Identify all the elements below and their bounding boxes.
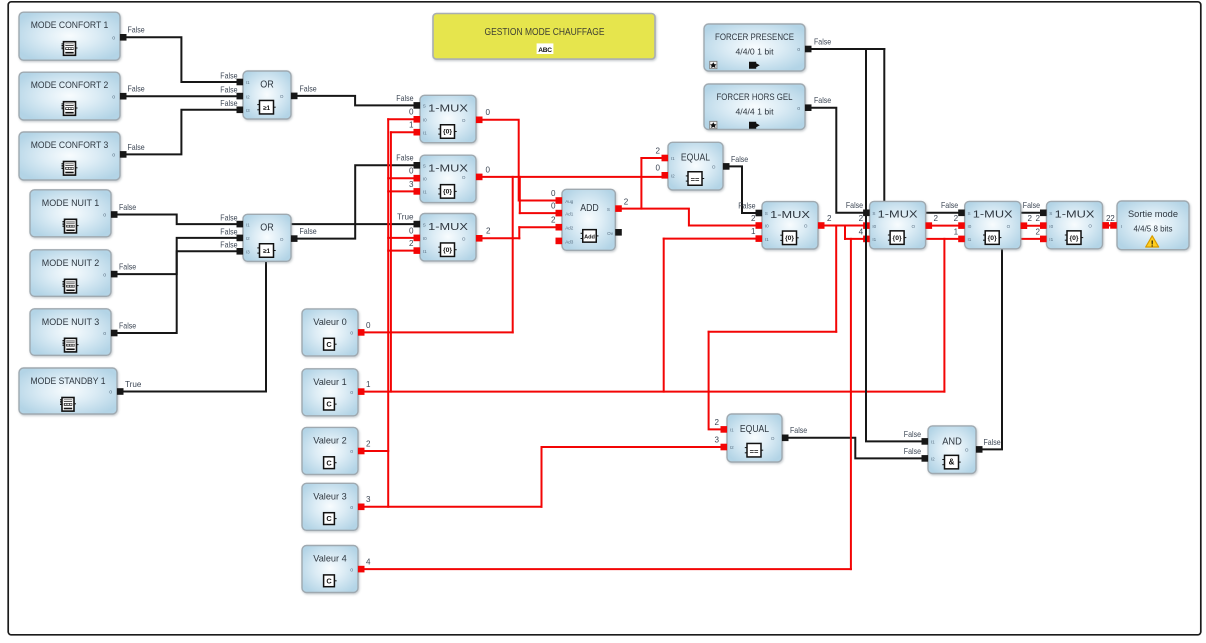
svg-text:I1: I1 (931, 440, 935, 445)
svg-text:4/4/4 1 bit: 4/4/4 1 bit (736, 106, 775, 116)
svg-text:C: C (326, 576, 332, 585)
svg-text:1-MUX: 1-MUX (428, 163, 468, 175)
svg-text:False: False (220, 72, 238, 81)
wire MODE CONFORT 1 O -> OR1 I1 (124, 37, 240, 82)
wire MUX4 O -> MUX5 I0 / EQUAL2 I1 (709, 226, 867, 430)
wire MODE NUIT 3 O -> OR2 I3 (115, 251, 240, 333)
svg-text:False: False (1023, 201, 1041, 210)
svg-text:False: False (396, 154, 414, 163)
svg-text:0: 0 (551, 202, 556, 211)
svg-text:I3: I3 (246, 108, 250, 113)
svg-text:S: S (423, 104, 426, 109)
svg-text:O: O (280, 237, 284, 242)
svg-text:2: 2 (486, 227, 491, 236)
svg-text:O: O (462, 237, 466, 242)
svg-text:O: O (280, 94, 284, 99)
wire EQUAL1 O -> MUX4 S (727, 166, 759, 213)
svg-text:I0: I0 (1049, 224, 1053, 229)
svg-text:False: False (984, 438, 1002, 447)
svg-text:S: S (872, 211, 875, 216)
constant block Valeur 3 (302, 483, 365, 530)
svg-text:1-MUX: 1-MUX (973, 209, 1013, 221)
svg-text:ADD: ADD (580, 202, 599, 214)
svg-text:C: C (326, 458, 332, 467)
svg-text:1: 1 (954, 227, 959, 236)
gate OR1 (237, 71, 298, 119)
wire MUX1 O -> ADD Aug (480, 120, 559, 201)
svg-text:ABC: ABC (538, 47, 552, 54)
svg-text:≥1: ≥1 (263, 248, 271, 255)
svg-text:Valeur 1: Valeur 1 (313, 377, 347, 387)
svg-text:2: 2 (551, 216, 556, 225)
svg-text:C: C (326, 340, 332, 349)
svg-text:I1: I1 (872, 237, 876, 242)
svg-text:2: 2 (1110, 214, 1115, 223)
svg-text:Ad1: Ad1 (565, 212, 574, 217)
mux U1 (1-MUX) (414, 95, 483, 142)
wire MUX3 O -> ADD Ad2 (480, 227, 559, 238)
svg-text:!: ! (1151, 238, 1154, 248)
svg-text:I2: I2 (931, 457, 935, 462)
svg-text:o: o (350, 505, 353, 511)
svg-text:o: o (103, 213, 106, 219)
svg-text:1-MUX: 1-MUX (770, 209, 810, 221)
svg-text:False: False (738, 201, 756, 210)
title banner GESTION MODE CHAUFFAGE (433, 14, 655, 60)
svg-text:1-MUX: 1-MUX (1055, 209, 1095, 221)
svg-text:I1: I1 (246, 80, 250, 85)
svg-text:2: 2 (1028, 214, 1033, 223)
svg-text:4/4/0 1 bit: 4/4/0 1 bit (736, 46, 775, 56)
wire FORCER PRESENCE O -> AND I1 (866, 49, 925, 441)
svg-text:OR: OR (260, 222, 274, 234)
svg-text:S: S (423, 222, 426, 227)
wire OR2 O -> MUX2 S (295, 165, 417, 238)
svg-text:Sortie mode: Sortie mode (1128, 209, 1178, 219)
svg-text:I0: I0 (872, 224, 876, 229)
output block Sortie mode (1110, 201, 1189, 250)
input block MODE STANDBY 1 (19, 368, 124, 414)
svg-text:I1: I1 (968, 237, 972, 242)
svg-text:S: S (765, 211, 768, 216)
constant block Valeur 1 (302, 369, 365, 416)
svg-text:2: 2 (1035, 227, 1040, 236)
svg-text:2: 2 (624, 198, 629, 207)
svg-text:MODE CONFORT 2: MODE CONFORT 2 (31, 80, 109, 90)
svg-text:1: 1 (751, 227, 756, 236)
svg-text:I1: I1 (1049, 237, 1053, 242)
svg-text:I1: I1 (730, 428, 734, 433)
svg-text:{0}: {0} (893, 235, 902, 242)
svg-text:O: O (965, 448, 969, 453)
input block MODE CONFORT 2 (19, 72, 127, 120)
svg-text:I1: I1 (423, 249, 427, 254)
svg-text:MODE NUIT 2: MODE NUIT 2 (42, 258, 100, 268)
svg-text:I1: I1 (246, 222, 250, 227)
svg-text:False: False (904, 447, 922, 456)
input block MODE NUIT 3 (30, 309, 118, 356)
svg-text:False: False (814, 96, 832, 105)
svg-text:False: False (814, 37, 832, 46)
svg-text:False: False (128, 26, 146, 35)
wire MODE STANDBY 1 O -> MUX3 S (121, 224, 417, 391)
svg-text:False: False (300, 84, 318, 93)
comparator EQUAL2 (721, 414, 789, 462)
svg-text:2: 2 (827, 214, 832, 223)
constant block Valeur 0 (302, 309, 365, 356)
wire Valeur 2 net (to MUX3 I1) (362, 251, 417, 451)
svg-text:0: 0 (551, 189, 556, 198)
svg-text:MODE NUIT 3: MODE NUIT 3 (42, 317, 100, 327)
wire MODE CONFORT 2 O -> OR1 I2 (124, 95, 240, 97)
mux U7 (1-MUX) (1040, 201, 1109, 248)
svg-text:o: o (109, 390, 112, 396)
svg-text:False: False (904, 430, 922, 439)
svg-text:0: 0 (409, 226, 414, 235)
input block MODE NUIT 2 (30, 250, 118, 296)
wire AND O -> MUX7 S (980, 213, 1044, 450)
svg-text:MODE STANDBY 1: MODE STANDBY 1 (31, 376, 106, 386)
svg-text:o: o (350, 390, 353, 396)
svg-text:FORCER HORS GEL: FORCER HORS GEL (717, 92, 793, 102)
svg-text:{0}: {0} (443, 189, 452, 196)
svg-text:S: S (1049, 211, 1052, 216)
svg-text:MODE NUIT 1: MODE NUIT 1 (42, 198, 100, 208)
svg-text:Ad3: Ad3 (565, 239, 574, 244)
comparator EQUAL1 (662, 142, 730, 190)
svg-text:O: O (462, 175, 466, 180)
svg-text:0: 0 (486, 108, 491, 117)
wire ADD S -> MUX4 I0 / EQUAL1 I1 (619, 158, 759, 226)
svg-text:Valeur 2: Valeur 2 (313, 435, 347, 445)
svg-text:I0: I0 (423, 236, 427, 241)
wire MUX2 O -> EQUAL1 I2 / ADD Ad1 (480, 177, 665, 213)
svg-text:False: False (731, 155, 749, 164)
svg-text:Ad2: Ad2 (565, 226, 574, 231)
wire MUX5 O -> MUX6 I0 (929, 225, 961, 227)
svg-text:I1: I1 (765, 237, 769, 242)
svg-text:I1: I1 (423, 130, 427, 135)
mux U3 (1-MUX) (414, 214, 483, 261)
svg-text:4: 4 (366, 558, 371, 567)
wire I1 row behind MUX5/MUX6 (to MUX6 I1, MUX7 I1) (866, 238, 1043, 240)
adder ADD (556, 189, 622, 250)
wire OR1 O -> MUX1 S (295, 96, 417, 106)
svg-text:2: 2 (954, 214, 959, 223)
svg-text:Valeur 4: Valeur 4 (313, 554, 347, 564)
mux U2 (1-MUX) (414, 155, 483, 202)
svg-text:O: O (1088, 224, 1092, 229)
svg-text:Valeur 3: Valeur 3 (313, 491, 347, 501)
wire MUX7 O -> Sortie mode I (1106, 224, 1114, 226)
svg-text:{0}: {0} (785, 235, 794, 242)
gate OR2 (237, 214, 298, 261)
svg-text:I3: I3 (246, 250, 250, 255)
svg-text:False: False (128, 85, 146, 94)
svg-text:GESTION MODE CHAUFFAGE: GESTION MODE CHAUFFAGE (485, 27, 605, 38)
constant block Valeur 4 (302, 546, 365, 593)
svg-text:False: False (941, 201, 959, 210)
wire Valeur 0 net (bus to MUX I0 inputs) (362, 119, 513, 507)
mux U4 (1-MUX) (756, 202, 825, 249)
svg-text:I: I (1121, 224, 1122, 230)
wire EQUAL2 O -> AND I2 (786, 438, 925, 459)
svg-text:False: False (220, 99, 238, 108)
mux U5 (1-MUX) (863, 201, 932, 248)
svg-text:I2: I2 (246, 236, 250, 241)
wire MODE CONFORT 3 O -> OR1 I3 (124, 110, 240, 155)
svg-text:4/4/5 8 bits: 4/4/5 8 bits (1134, 224, 1173, 234)
svg-text:False: False (220, 241, 238, 250)
svg-text:False: False (119, 203, 137, 212)
input block MODE CONFORT 3 (19, 132, 127, 180)
svg-text:I2: I2 (730, 445, 734, 450)
svg-text:False: False (300, 227, 318, 236)
svg-text:False: False (846, 201, 864, 210)
svg-text:2: 2 (859, 214, 864, 223)
svg-text:Valeur 0: Valeur 0 (313, 317, 347, 327)
svg-text:EQUAL: EQUAL (681, 151, 710, 163)
svg-text:3: 3 (366, 495, 371, 504)
svg-text:MODE CONFORT 1: MODE CONFORT 1 (31, 20, 109, 30)
svg-text:2: 2 (655, 146, 660, 155)
svg-text:0: 0 (486, 165, 491, 174)
svg-text:o: o (797, 47, 800, 53)
svg-text:2: 2 (366, 439, 371, 448)
svg-text:False: False (119, 321, 137, 330)
input block MODE CONFORT 1 (19, 12, 127, 60)
svg-text:o: o (112, 153, 115, 159)
svg-text:{0}: {0} (443, 247, 452, 254)
svg-text:True: True (125, 380, 142, 389)
svg-text:False: False (119, 263, 137, 272)
svg-text:I1: I1 (671, 156, 675, 161)
svg-text:False: False (396, 94, 414, 103)
svg-text:Add: Add (584, 235, 595, 241)
svg-text:1-MUX: 1-MUX (428, 221, 468, 233)
svg-text:MODE CONFORT 3: MODE CONFORT 3 (31, 140, 109, 150)
svg-text:False: False (128, 143, 146, 152)
svg-text:1-MUX: 1-MUX (878, 209, 918, 221)
svg-text:0: 0 (409, 167, 414, 176)
wire Valeur 3 net (to MUX2 I1, EQUAL2 I2) (362, 191, 724, 506)
svg-text:S: S (968, 211, 971, 216)
wire MODE NUIT 2 O -> OR2 I2 (115, 238, 240, 274)
svg-text:1: 1 (366, 380, 371, 389)
svg-text:I2: I2 (246, 94, 250, 99)
svg-text:I0: I0 (423, 118, 427, 123)
svg-text:≥1: ≥1 (263, 105, 271, 112)
svg-text:1: 1 (409, 121, 414, 130)
svg-text:==: == (750, 447, 759, 456)
svg-text:{0}: {0} (988, 235, 997, 242)
wire MUX6 O -> MUX7 I0 (1024, 225, 1043, 227)
svg-text:I0: I0 (423, 176, 427, 181)
svg-text:1-MUX: 1-MUX (428, 103, 468, 115)
svg-text:2: 2 (714, 418, 719, 427)
svg-text:2: 2 (751, 214, 756, 223)
svg-text:AND: AND (942, 435, 962, 447)
svg-text:0: 0 (655, 164, 660, 173)
svg-text:2: 2 (934, 214, 939, 223)
svg-text:O: O (771, 436, 775, 441)
svg-text:O: O (712, 165, 716, 170)
svg-text:False: False (790, 426, 808, 435)
svg-text:3: 3 (409, 180, 414, 189)
svg-text:4: 4 (859, 227, 864, 236)
svg-text:O: O (804, 224, 808, 229)
svg-text:O: O (462, 118, 466, 123)
svg-text:C: C (326, 400, 332, 409)
svg-text:3: 3 (714, 435, 719, 444)
input block FORCER PRESENCE (704, 24, 812, 71)
svg-text:Aug: Aug (565, 199, 574, 204)
svg-text:o: o (350, 449, 353, 455)
svg-text:&: & (949, 458, 955, 467)
svg-text:o: o (797, 106, 800, 112)
svg-text:o: o (112, 94, 115, 100)
svg-text:2: 2 (1035, 214, 1040, 223)
input block MODE NUIT 1 (30, 190, 118, 237)
input block FORCER HORS GEL (704, 84, 812, 130)
wire MODE NUIT 1 O -> OR2 I1 (115, 215, 240, 225)
mux U6 (1-MUX) (958, 201, 1027, 248)
wire Valeur 4 net (to MUX5 I1) (362, 239, 867, 569)
gate AND (922, 426, 983, 474)
svg-text:O: O (1007, 224, 1011, 229)
svg-text:o: o (350, 567, 353, 573)
svg-text:False: False (220, 227, 238, 236)
svg-text:FORCER PRESENCE: FORCER PRESENCE (715, 32, 794, 42)
svg-text:o: o (112, 36, 115, 42)
svg-text:{0}: {0} (1069, 235, 1078, 242)
svg-text:C: C (326, 514, 332, 523)
svg-text:I2: I2 (671, 174, 675, 179)
svg-text:OR: OR (260, 78, 274, 90)
svg-text:o: o (350, 331, 353, 337)
wire FORCER PRESENCE O -> MUX6 S (809, 49, 962, 213)
constant block Valeur 2 (302, 427, 365, 474)
wire FORCER HORS GEL O -> MUX5 S (809, 108, 867, 213)
svg-text:False: False (220, 214, 238, 223)
svg-text:EQUAL: EQUAL (740, 423, 769, 435)
svg-text:S: S (423, 164, 426, 169)
svg-text:I1: I1 (423, 190, 427, 195)
svg-text:{0}: {0} (443, 129, 452, 136)
svg-text:O: O (912, 224, 916, 229)
wire Valeur 1 net (to MUX1 I1, MUX4 I1, MUX6 I1) (362, 132, 945, 391)
svg-text:False: False (220, 86, 238, 95)
svg-text:0: 0 (409, 108, 414, 117)
svg-text:I0: I0 (968, 224, 972, 229)
svg-text:o: o (103, 272, 106, 278)
svg-text:o: o (103, 331, 106, 337)
svg-text:0: 0 (366, 321, 371, 330)
svg-text:Ov: Ov (607, 231, 614, 236)
svg-text:2: 2 (409, 239, 414, 248)
svg-text:True: True (397, 213, 414, 222)
svg-text:I0: I0 (765, 224, 769, 229)
svg-text:==: == (691, 175, 700, 184)
svg-text:S: S (607, 207, 610, 212)
